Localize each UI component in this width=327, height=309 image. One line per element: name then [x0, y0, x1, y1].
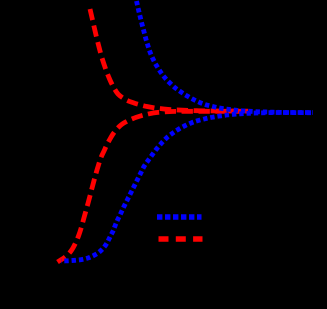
curve blue lower branch	[61, 113, 313, 262]
curve blue upper branch	[137, 1, 314, 113]
curve red lower branch	[58, 111, 249, 262]
legend blue dotted sample	[157, 214, 202, 219]
legend red dashed sample	[159, 236, 203, 241]
curve red upper branch	[90, 9, 248, 111]
